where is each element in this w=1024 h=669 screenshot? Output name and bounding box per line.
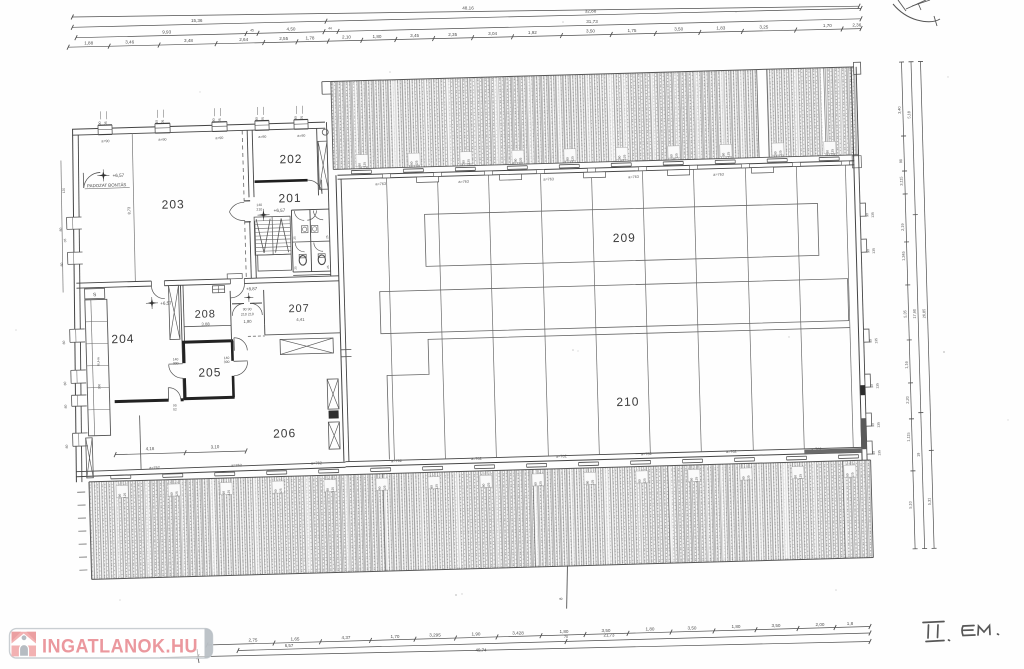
svg-text:90: 90 <box>326 488 330 492</box>
svg-text:1,90: 1,90 <box>472 632 481 637</box>
west wall windows <box>67 217 82 229</box>
svg-text:125: 125 <box>695 477 699 483</box>
svg-text:90: 90 <box>482 483 486 487</box>
svg-text:90: 90 <box>618 155 622 159</box>
scan speckles <box>455 594 457 596</box>
svg-text:90: 90 <box>410 161 414 165</box>
svg-text:3,428: 3,428 <box>512 630 524 635</box>
svg-text:a=763: a=763 <box>458 180 469 184</box>
svg-text:a=763: a=763 <box>375 182 386 186</box>
entry door arc top left <box>83 172 100 187</box>
svg-text:45: 45 <box>250 28 254 32</box>
door corridor to 206 <box>234 337 247 350</box>
svg-text:125: 125 <box>726 151 730 157</box>
room 205 thick walls <box>182 341 233 342</box>
svg-text:05: 05 <box>104 121 108 125</box>
svg-text:a=762: a=762 <box>726 450 737 454</box>
svg-text:125: 125 <box>850 472 854 478</box>
svg-text:1,80: 1,80 <box>732 624 741 629</box>
corridor doors 208/207 <box>229 291 232 325</box>
svg-text:90: 90 <box>255 117 259 121</box>
svg-text:a=90: a=90 <box>258 135 266 139</box>
svg-text:80: 80 <box>60 263 64 267</box>
wall 203 south <box>76 276 338 283</box>
south wall of building (left part) <box>76 462 345 472</box>
svg-text:135: 135 <box>875 383 879 389</box>
svg-text:1,8: 1,8 <box>847 621 854 626</box>
svg-text:a=762: a=762 <box>471 457 482 461</box>
svg-text:26,85: 26,85 <box>922 309 926 319</box>
svg-text:90 90: 90 90 <box>243 307 252 311</box>
thick wall west of 205 <box>115 400 184 402</box>
S box <box>85 288 105 299</box>
svg-text:6,57: 6,57 <box>285 643 294 648</box>
svg-text:3,45: 3,45 <box>410 33 419 38</box>
svg-text:125: 125 <box>383 485 387 491</box>
svg-text:44: 44 <box>328 26 332 30</box>
svg-text:1,80: 1,80 <box>560 629 569 634</box>
svg-text:a=90: a=90 <box>297 134 305 138</box>
svg-text:125: 125 <box>279 488 283 494</box>
shaft on west wall bottom <box>86 438 94 478</box>
205 doors <box>181 363 187 378</box>
window dashes above bottom band <box>111 474 131 477</box>
svg-text:+6,57: +6,57 <box>112 173 124 178</box>
svg-text:207: 207 <box>288 303 310 316</box>
svg-text:90: 90 <box>870 384 874 388</box>
svg-text:5,10: 5,10 <box>909 501 913 508</box>
svg-text:209: 209 <box>613 231 636 246</box>
svg-text:3,25: 3,25 <box>759 25 768 30</box>
svg-text:8,73: 8,73 <box>127 207 131 214</box>
svg-text:02: 02 <box>173 407 177 411</box>
svg-text:90: 90 <box>825 150 829 154</box>
svg-text:90: 90 <box>514 158 518 162</box>
svg-text:90: 90 <box>669 154 673 158</box>
svg-text:125: 125 <box>363 162 367 168</box>
closet in 204 <box>85 299 111 436</box>
svg-text:3,50: 3,50 <box>586 29 595 34</box>
svg-text:90: 90 <box>773 151 777 155</box>
bottom band window labels <box>116 485 128 497</box>
svg-text:125: 125 <box>487 482 491 488</box>
svg-text:17,90: 17,90 <box>913 309 917 319</box>
crane rail rectangle 209 <box>425 203 819 266</box>
svg-text:90: 90 <box>294 116 298 120</box>
svg-text:80: 80 <box>62 340 66 344</box>
shaft boxes on hall left wall <box>327 379 339 409</box>
svg-text:90: 90 <box>358 163 362 167</box>
svg-text:25: 25 <box>293 236 297 240</box>
svg-text:INGATLANOK.HU: INGATLANOK.HU <box>42 637 198 658</box>
svg-text:3,50: 3,50 <box>674 27 683 32</box>
svg-text:3,10: 3,10 <box>211 444 220 449</box>
svg-text:48,16: 48,16 <box>462 5 474 10</box>
svg-text:90: 90 <box>721 152 725 156</box>
svg-text:2,00: 2,00 <box>816 622 825 627</box>
svg-text:a=762: a=762 <box>556 454 567 458</box>
svg-text:32,88: 32,88 <box>585 9 597 14</box>
svg-text:90: 90 <box>274 489 278 493</box>
svg-text:a=762: a=762 <box>391 459 402 463</box>
radiator box <box>212 286 224 293</box>
svg-text:3,04: 3,04 <box>488 31 497 36</box>
drain line below band <box>565 566 568 609</box>
svg-text:1,83: 1,83 <box>716 26 725 31</box>
svg-text:125: 125 <box>227 490 231 496</box>
svg-text:3,115: 3,115 <box>900 176 904 185</box>
double door 203/201 <box>229 202 244 211</box>
svg-text:210: 210 <box>616 394 639 409</box>
svg-text:90: 90 <box>742 476 746 480</box>
svg-text:140: 140 <box>256 203 262 207</box>
svg-text:125: 125 <box>622 154 626 160</box>
svg-text:125: 125 <box>591 479 595 485</box>
svg-text:80: 80 <box>59 228 63 232</box>
svg-text:5,31: 5,31 <box>927 498 931 505</box>
level marker 203 <box>99 171 108 180</box>
svg-text:125: 125 <box>746 475 750 481</box>
north wall windows <box>98 125 112 135</box>
svg-text:+8,87: +8,87 <box>246 286 258 291</box>
beam line room 203 <box>131 134 136 282</box>
floor label II. EM. <box>923 622 999 642</box>
svg-text:1,70: 1,70 <box>391 634 400 639</box>
svg-text:RUHA: RUHA <box>96 356 100 366</box>
svg-text:80: 80 <box>64 404 68 408</box>
svg-text:4,41: 4,41 <box>296 317 305 322</box>
svg-text:70: 70 <box>564 635 568 639</box>
svg-text:1,115: 1,115 <box>907 432 911 441</box>
left block outer walls <box>72 122 325 129</box>
svg-text:203: 203 <box>161 197 184 212</box>
svg-text:1,345: 1,345 <box>902 251 906 261</box>
svg-text:90: 90 <box>865 213 869 217</box>
svg-text:a=763: a=763 <box>628 175 639 179</box>
staircase <box>254 216 291 255</box>
svg-text:125: 125 <box>830 149 834 155</box>
svg-text:360: 360 <box>97 384 101 390</box>
NE corner notch <box>853 62 860 74</box>
svg-text:90: 90 <box>899 159 903 163</box>
top dimension chain <box>72 6 859 17</box>
svg-text:21,73: 21,73 <box>604 633 616 638</box>
svg-text:5,18: 5,18 <box>907 111 911 118</box>
svg-text:1,80: 1,80 <box>646 627 655 632</box>
svg-text:300: 300 <box>173 361 179 365</box>
wall 203 | 202 <box>247 130 249 197</box>
svg-text:90: 90 <box>170 492 174 496</box>
bottom dimension chain <box>207 627 870 646</box>
svg-text:90: 90 <box>793 475 797 479</box>
svg-text:135: 135 <box>872 248 876 254</box>
svg-text:90: 90 <box>155 120 159 124</box>
svg-text:a=90: a=90 <box>158 138 166 142</box>
svg-text:90: 90 <box>869 339 873 343</box>
svg-text:125: 125 <box>519 157 523 163</box>
svg-text:90: 90 <box>462 160 466 164</box>
svg-text:210 210: 210 210 <box>241 312 254 316</box>
svg-text:125: 125 <box>175 491 179 497</box>
svg-text:90: 90 <box>118 493 122 497</box>
svg-text:135: 135 <box>877 450 881 456</box>
svg-text:80: 80 <box>65 444 69 448</box>
svg-text:25: 25 <box>293 266 297 270</box>
svg-text:+6,57: +6,57 <box>274 208 286 213</box>
svg-text:1,80: 1,80 <box>373 34 382 39</box>
svg-text:1,88: 1,88 <box>84 41 93 46</box>
svg-text:125: 125 <box>571 156 575 162</box>
svg-text:2,36: 2,36 <box>852 23 861 28</box>
svg-text:1,70: 1,70 <box>823 23 832 28</box>
svg-text:a=763: a=763 <box>543 177 554 181</box>
right dimension verticals <box>896 61 936 549</box>
east wall 202 block + shaft <box>317 128 319 195</box>
level marker 204 <box>147 298 156 307</box>
svg-text:202: 202 <box>279 152 302 167</box>
svg-text:90: 90 <box>566 157 570 161</box>
svg-text:90: 90 <box>430 485 434 489</box>
svg-text:31,73: 31,73 <box>586 19 598 24</box>
lower region outline 210 <box>386 328 853 460</box>
hatched roof band top <box>331 67 858 170</box>
svg-text:125: 125 <box>435 484 439 490</box>
svg-text:a=762: a=762 <box>641 452 652 456</box>
watermark ingatlanok.hu <box>10 629 213 658</box>
svg-text:2,55: 2,55 <box>279 36 288 41</box>
roof band window labels <box>356 154 368 166</box>
svg-text:90: 90 <box>534 482 538 486</box>
dotted boundary 203 <box>242 130 244 201</box>
svg-text:90: 90 <box>222 491 226 495</box>
svg-text:3,50: 3,50 <box>772 623 781 628</box>
svg-text:90: 90 <box>378 486 382 490</box>
svg-text:125: 125 <box>798 474 802 480</box>
toilets <box>291 210 293 272</box>
svg-text:1,92: 1,92 <box>528 30 537 35</box>
wall 201 corridor lower <box>250 221 252 278</box>
horizontal shaft below 207 <box>280 338 333 354</box>
svg-text:15,36: 15,36 <box>191 18 203 23</box>
svg-text:90: 90 <box>586 480 590 484</box>
svg-text:3,48: 3,48 <box>184 38 193 43</box>
svg-text:4,18: 4,18 <box>146 446 155 451</box>
svg-text:2,20: 2,20 <box>906 396 910 403</box>
svg-text:3,46: 3,46 <box>125 40 134 45</box>
svg-text:90: 90 <box>690 478 694 482</box>
thick wall 202|201 with door <box>255 180 308 181</box>
svg-text:1,78: 1,78 <box>306 35 315 40</box>
svg-text:135: 135 <box>877 422 881 428</box>
svg-text:1,80: 1,80 <box>243 319 252 324</box>
svg-text:1,16: 1,16 <box>905 361 909 368</box>
svg-text:3,50: 3,50 <box>688 626 697 631</box>
svg-text:135: 135 <box>874 338 878 344</box>
svg-text:210: 210 <box>256 207 262 211</box>
svg-text:90: 90 <box>872 451 876 455</box>
svg-text:05: 05 <box>63 238 67 242</box>
svg-text:4,37: 4,37 <box>342 635 351 640</box>
crane rail rectangle middle <box>380 279 849 334</box>
svg-text:125: 125 <box>331 487 335 493</box>
svg-text:a=763: a=763 <box>713 173 724 177</box>
svg-text:+6,57: +6,57 <box>160 300 172 305</box>
svg-text:9,93: 9,93 <box>162 29 171 34</box>
level marker 201 <box>259 210 268 219</box>
svg-text:49,74: 49,74 <box>476 648 488 653</box>
svg-text:a=90: a=90 <box>101 139 109 143</box>
svg-text:2,35: 2,35 <box>448 32 457 37</box>
svg-text:125: 125 <box>539 481 543 487</box>
svg-text:05: 05 <box>161 120 165 124</box>
svg-text:19: 19 <box>917 453 921 457</box>
hatched roof band bottom <box>89 460 873 579</box>
svg-text:125: 125 <box>643 478 647 484</box>
right wall window notches <box>860 203 866 216</box>
svg-text:a=90: a=90 <box>215 136 223 140</box>
radiator boxes below top wall <box>417 176 439 182</box>
wall 204|208 with shaft <box>180 285 183 399</box>
svg-text:125: 125 <box>778 150 782 156</box>
svg-text:90: 90 <box>638 479 642 483</box>
svg-text:90: 90 <box>98 121 102 125</box>
svg-text:208: 208 <box>194 308 216 321</box>
svg-text:125: 125 <box>467 159 471 165</box>
left ticks of bottom band <box>77 491 85 493</box>
stair landing <box>258 254 292 271</box>
svg-text:205: 205 <box>198 365 221 380</box>
svg-text:2,19: 2,19 <box>901 223 905 230</box>
corridor wall under 208 <box>230 325 232 340</box>
svg-text:5,35: 5,35 <box>903 310 907 317</box>
svg-text:1,65: 1,65 <box>291 637 300 642</box>
north arrow fragment <box>893 4 940 22</box>
hall outline <box>337 161 854 175</box>
svg-text:25: 25 <box>325 235 329 239</box>
hall columns <box>387 178 395 460</box>
door in south wall of 203 <box>151 280 164 287</box>
svg-text:2,10: 2,10 <box>342 35 351 40</box>
svg-text:3,295: 3,295 <box>429 633 441 638</box>
svg-text:204: 204 <box>111 332 134 347</box>
svg-text:90: 90 <box>845 473 849 477</box>
svg-text:206: 206 <box>273 426 296 441</box>
svg-text:4,50: 4,50 <box>287 26 296 31</box>
svg-text:05: 05 <box>300 116 304 120</box>
svg-text:1,75: 1,75 <box>628 28 637 33</box>
svg-text:135: 135 <box>871 212 875 218</box>
svg-text:25: 25 <box>326 265 330 269</box>
svg-text:90: 90 <box>212 118 216 122</box>
SE corner wall fill <box>860 418 866 449</box>
svg-text:05: 05 <box>218 118 222 122</box>
door in wall west 205 <box>169 396 181 403</box>
svg-text:2,64: 2,64 <box>239 37 248 42</box>
svg-text:3,40: 3,40 <box>898 106 902 113</box>
svg-text:2,75: 2,75 <box>249 638 258 643</box>
svg-text:125: 125 <box>415 160 419 166</box>
svg-text:201: 201 <box>278 191 301 206</box>
svg-text:90: 90 <box>871 423 875 427</box>
svg-text:125: 125 <box>123 492 127 498</box>
svg-text:120: 120 <box>62 188 66 194</box>
svg-text:90: 90 <box>866 249 870 253</box>
206 inner dim <box>115 451 246 455</box>
svg-text:80: 80 <box>63 381 67 385</box>
svg-text:300: 300 <box>224 360 230 364</box>
svg-text:05: 05 <box>261 117 265 121</box>
svg-text:125: 125 <box>674 153 678 159</box>
